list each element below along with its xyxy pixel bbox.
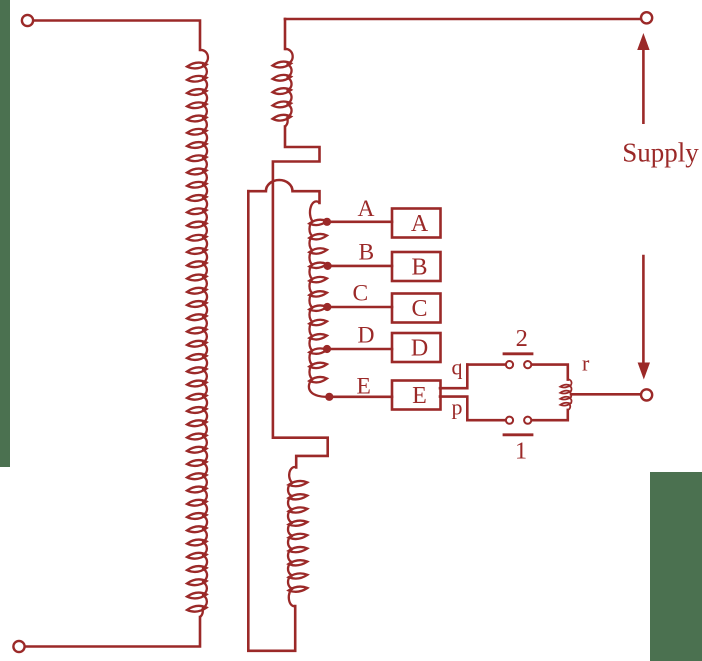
svg-text:1: 1 [515, 438, 527, 465]
svg-text:C: C [411, 296, 427, 322]
svg-text:A: A [358, 196, 375, 222]
svg-text:D: D [411, 336, 428, 362]
svg-text:D: D [358, 323, 375, 349]
svg-text:r: r [582, 351, 590, 376]
svg-text:q: q [452, 355, 463, 380]
svg-text:C: C [353, 281, 369, 307]
svg-text:A: A [411, 211, 429, 237]
svg-text:p: p [452, 395, 463, 420]
svg-text:B: B [411, 255, 427, 281]
svg-text:E: E [357, 374, 371, 400]
svg-text:Supply: Supply [622, 138, 699, 168]
svg-text:2: 2 [516, 325, 528, 352]
svg-text:E: E [412, 383, 427, 409]
svg-text:B: B [359, 240, 375, 266]
